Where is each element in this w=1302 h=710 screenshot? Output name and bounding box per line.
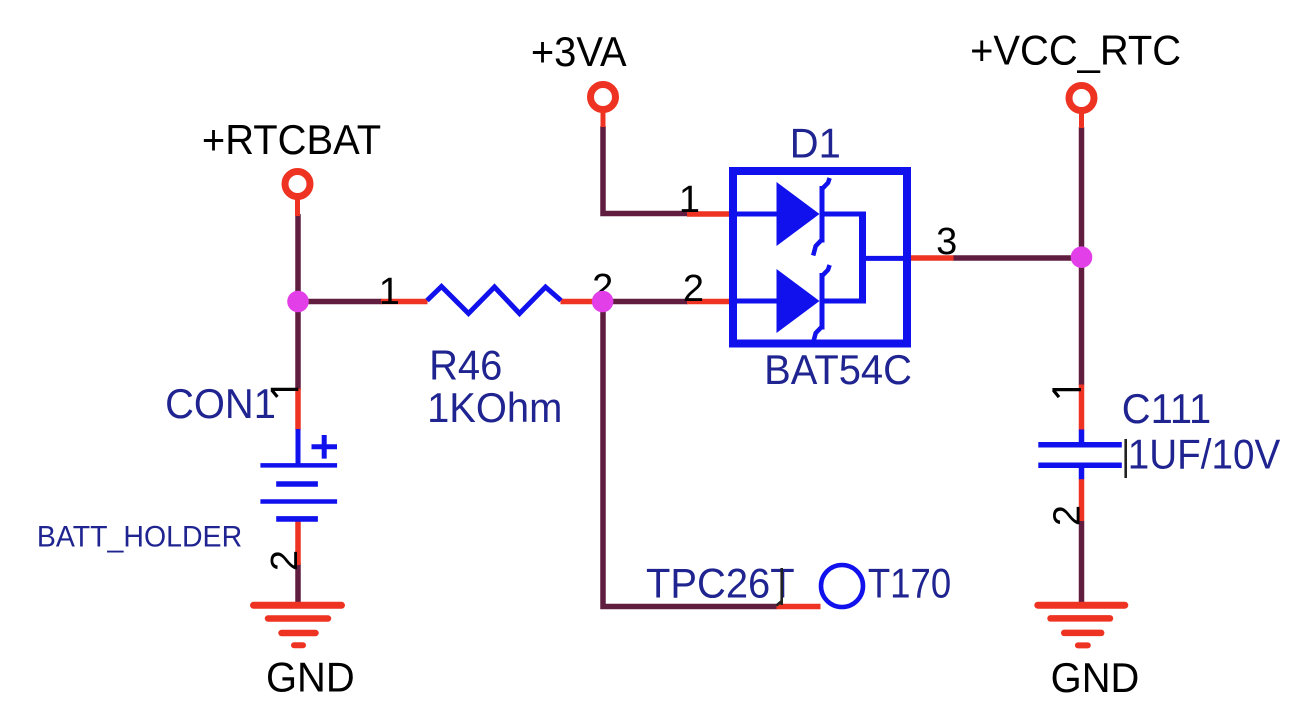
junction node at +RTCBAT rail: [287, 291, 309, 313]
svg-text:C111: C111: [1122, 385, 1211, 432]
svg-text:T170: T170: [868, 560, 951, 607]
svg-text:D1: D1: [790, 119, 841, 166]
svg-text:1: 1: [679, 179, 700, 221]
testpoint T170 circle: [821, 565, 863, 607]
power port circle +3VA: [591, 85, 616, 110]
pin stub power +VCC_RTC: [1079, 112, 1084, 128]
junction node at VCC rail: [1071, 246, 1093, 268]
ground symbol left: [254, 605, 342, 645]
pin stub R46 pin2: [561, 299, 604, 305]
capacitor C111 bottom plate: [1038, 462, 1122, 468]
power port circle +VCC_RTC: [1069, 86, 1094, 111]
testpoint pin mark: [777, 568, 782, 606]
resistor R46 zigzag: [427, 287, 561, 314]
battery CON1 top stub: [296, 429, 301, 465]
wire C111 to GND: [1079, 521, 1085, 602]
battery CON1 plate 1 long: [260, 463, 337, 468]
wire battery to GND: [295, 563, 301, 602]
wire +3VA vertical and to D1 pin1: [603, 126, 688, 214]
power port circle +RTCBAT: [285, 172, 310, 197]
battery CON1 plate 4 short: [276, 516, 318, 522]
pin stub power +RTCBAT: [295, 199, 300, 217]
svg-text:GND: GND: [1051, 654, 1140, 701]
wire left rail to R46: [298, 299, 382, 305]
wire D1 pin3 to VCC rail: [953, 255, 1082, 261]
svg-text:R46: R46: [429, 342, 502, 389]
svg-text:1UF/10V: 1UF/10V: [1128, 430, 1281, 478]
svg-text:1: 1: [379, 271, 400, 313]
battery CON1 plus sign: [312, 435, 338, 459]
diode D1 bottom cathode top hook: [822, 265, 830, 276]
pin stub C111 pin2: [1079, 479, 1085, 521]
svg-text:+RTCBAT: +RTCBAT: [202, 116, 381, 163]
pin stub testpoint T170: [777, 604, 821, 610]
pin number 1 of CON1 (rotated): [271, 389, 299, 397]
capacitor C111 top plate: [1038, 442, 1122, 448]
svg-text:CON1: CON1: [165, 380, 276, 427]
capacitor C111 bottom stub: [1079, 467, 1085, 479]
pin stub CON1 pin1: [295, 389, 301, 430]
diode package D1 box: [733, 171, 907, 344]
pin stub D1 pin3: [911, 255, 954, 261]
battery CON1 plate 3 long: [260, 499, 337, 504]
wire junction down to testpoint: [603, 302, 777, 607]
diode D1 bottom cathode line: [822, 299, 862, 304]
diode D1 top cathode top hook: [822, 178, 830, 189]
pin stub C111 pin1: [1079, 385, 1085, 431]
svg-text:2: 2: [683, 268, 704, 310]
svg-text:+3VA: +3VA: [531, 28, 627, 75]
pin stub R46 pin1: [381, 299, 428, 305]
capacitor C111 top stub: [1079, 430, 1085, 444]
diode D1 common cathode connector: [859, 212, 866, 304]
svg-text:1KOhm: 1KOhm: [427, 384, 562, 431]
wire +VCC_RTC vertical: [1079, 127, 1085, 385]
diode D1 bottom triangle: [777, 269, 820, 333]
diode D1 top cathode bottom hook: [813, 240, 822, 256]
svg-text:3: 3: [936, 221, 957, 263]
ground symbol right: [1038, 605, 1125, 645]
pin stub D1 pin1: [687, 211, 729, 217]
pin stub battery pin2: [295, 521, 301, 565]
junction node at R46 pin2: [592, 291, 614, 313]
battery CON1 plate 2 short: [276, 481, 318, 487]
diode D1 top anode line: [737, 212, 777, 217]
wire R46 to D1 pin2: [603, 299, 688, 305]
capacitor C111 tick mark: [1124, 439, 1127, 478]
diode D1 bottom cathode bottom hook: [813, 327, 822, 343]
wire +RTCBAT vertical: [295, 214, 301, 390]
svg-text:2: 2: [1047, 505, 1089, 526]
pin number 1 of C111 (rotated): [1052, 390, 1081, 398]
diode D1 top cathode bar: [820, 186, 825, 243]
svg-text:GND: GND: [266, 654, 355, 701]
pin stub D1 pin2: [687, 299, 729, 305]
diode D1 pin3 internal line: [863, 256, 908, 261]
diode D1 bottom anode line: [737, 299, 777, 304]
svg-text:+VCC_RTC: +VCC_RTC: [970, 27, 1181, 74]
diode D1 top cathode line: [822, 212, 862, 217]
diode D1 bottom cathode bar: [820, 273, 825, 330]
pin stub power +3VA: [601, 112, 606, 128]
svg-text:2: 2: [264, 550, 306, 571]
diode D1 top triangle: [777, 182, 820, 246]
svg-text:BAT54C: BAT54C: [764, 346, 912, 393]
svg-text:BATT_HOLDER: BATT_HOLDER: [37, 521, 242, 554]
svg-text:TPC26T: TPC26T: [646, 559, 795, 606]
